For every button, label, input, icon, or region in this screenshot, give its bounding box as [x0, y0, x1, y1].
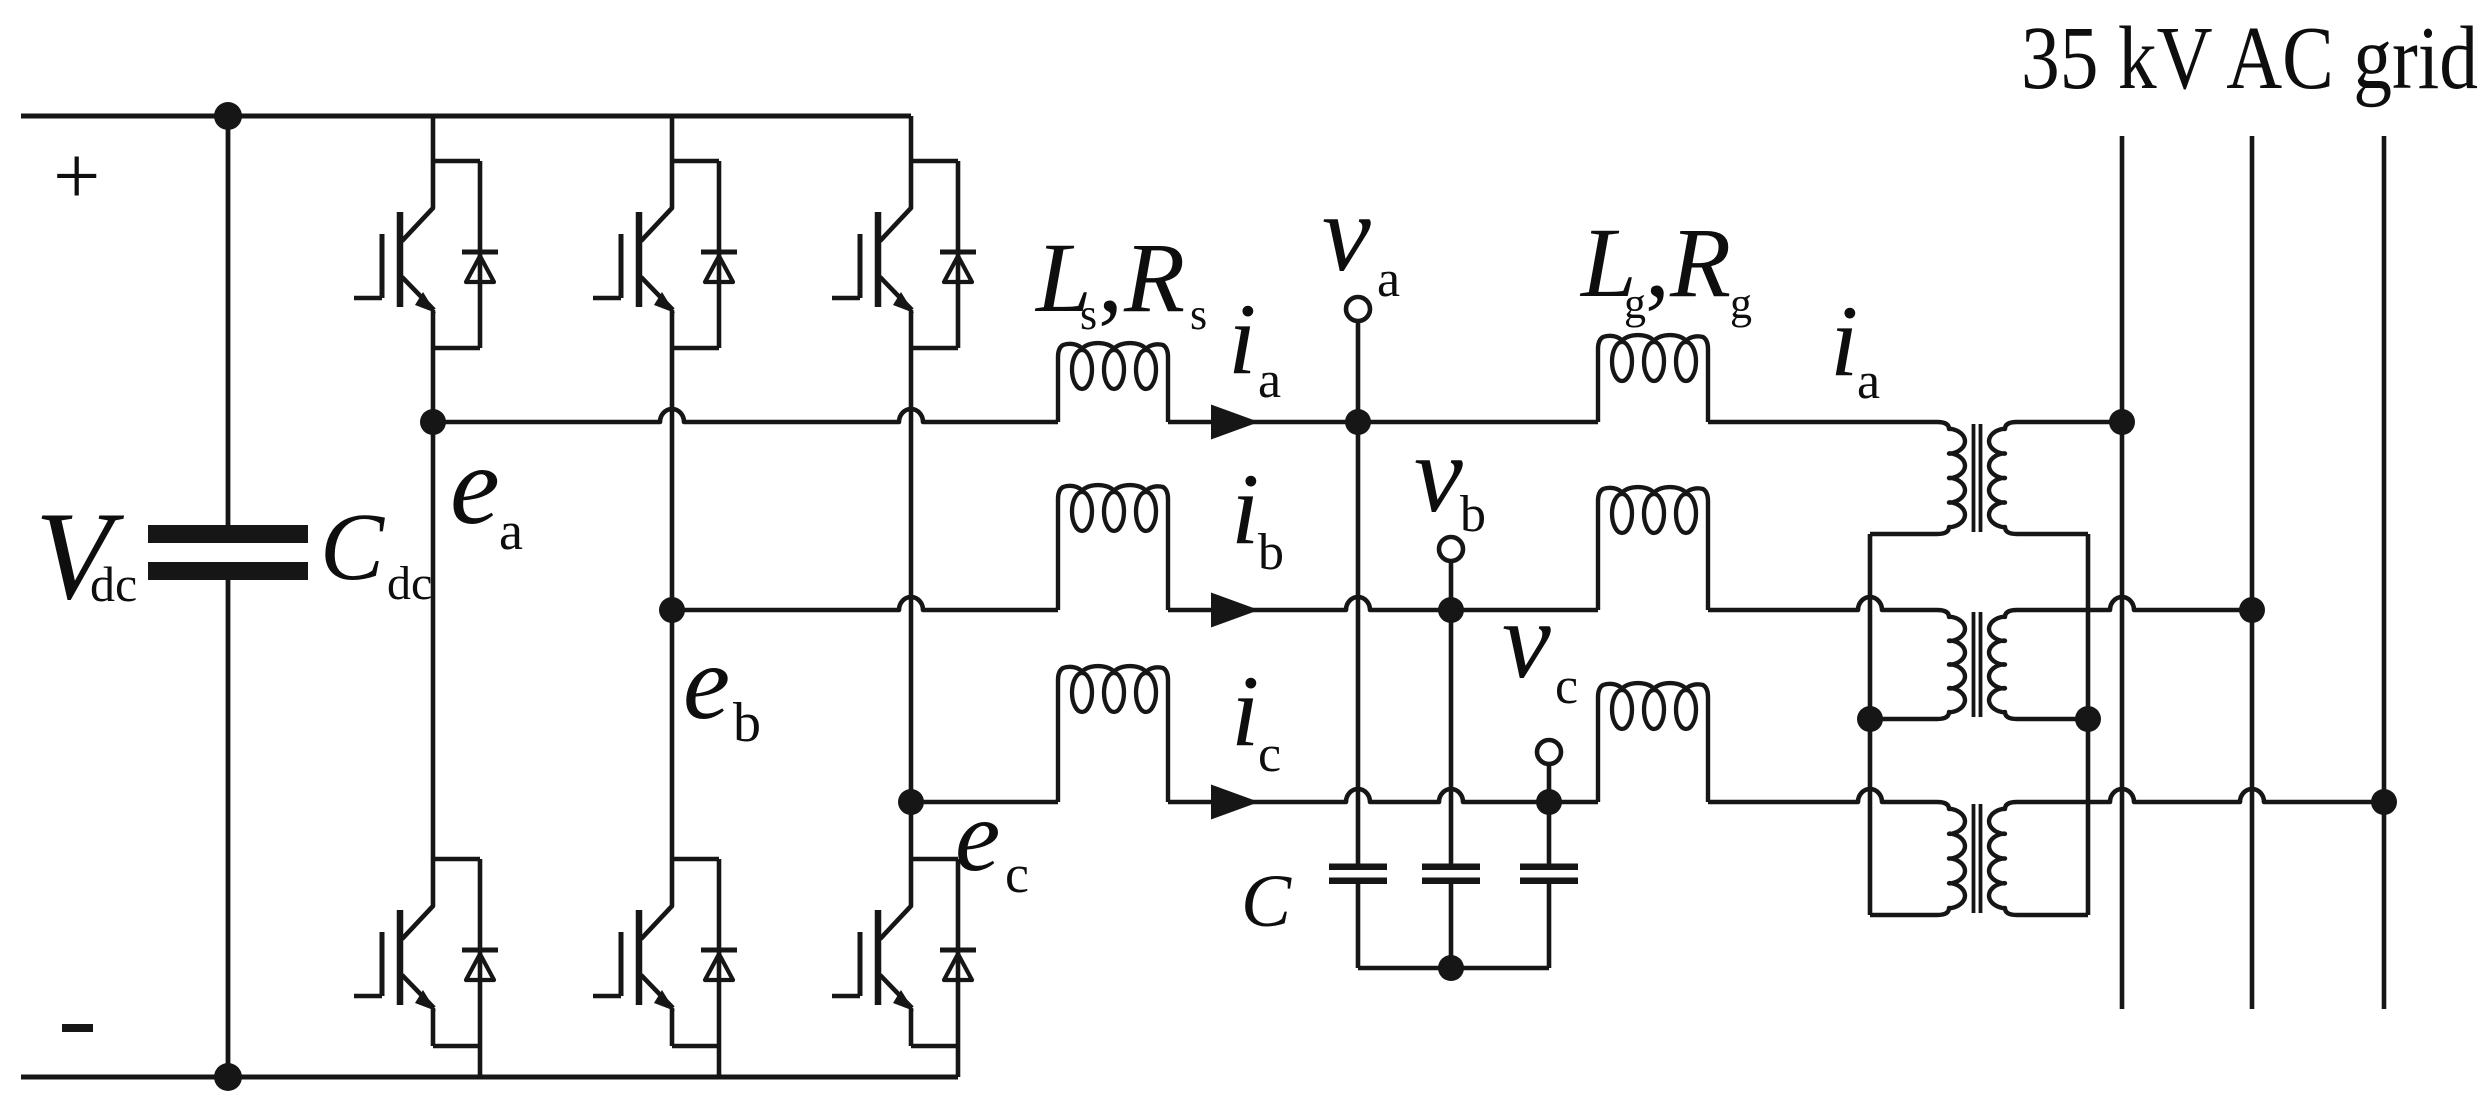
node: vc junction: [1536, 789, 1562, 815]
svg-text:R: R: [1123, 222, 1185, 333]
transistor Q3 (upper, phase b): [593, 161, 719, 348]
wire: leg a upper emitter to phase node: [431, 348, 436, 422]
node: phase c output: [898, 789, 924, 815]
capacitor C (phase a): [1329, 864, 1387, 969]
wire: primary star vertical: [1868, 534, 1873, 915]
grid bus line phase A: [2120, 136, 2125, 1009]
node: phase a output: [420, 409, 446, 435]
svg-text:s: s: [1190, 290, 1207, 339]
svg-text:+: +: [53, 130, 100, 223]
transistor Q4 (lower, phase b): [593, 859, 719, 1046]
svg-text:c: c: [1005, 844, 1029, 904]
wire: leg a phase node to lower collector: [431, 422, 436, 859]
label +: [53, 130, 100, 223]
svg-text:a: a: [499, 501, 523, 561]
wire: T3 secondary to grid phase C: [2017, 789, 2384, 802]
capacitor Cdc: [148, 116, 308, 1077]
svg-text:dc: dc: [90, 556, 137, 612]
svg-text:c: c: [1555, 658, 1578, 715]
node: grid phase A junction: [2109, 409, 2135, 435]
wire: leg c to DC- bus: [956, 1046, 961, 1077]
svg-text:c: c: [1258, 726, 1281, 783]
label -: [62, 1024, 93, 1032]
label ia (grid current, phase a): [1830, 285, 1880, 410]
svg-text:i: i: [1830, 285, 1858, 398]
svg-text:e: e: [955, 780, 1000, 893]
svg-text:35 kV AC grid: 35 kV AC grid: [2021, 9, 2478, 108]
svg-text:b: b: [1258, 524, 1284, 581]
node: DC- bus / Cdc junction: [214, 1063, 242, 1091]
svg-text:b: b: [733, 692, 761, 754]
wire: vc tap vertical: [1547, 764, 1552, 802]
wire: secondary star vertical: [2086, 534, 2091, 915]
label 35 kV AC grid: [2021, 9, 2478, 108]
wire: leg a collector stub from DC+ bus: [431, 116, 436, 161]
svg-text:,: ,: [1645, 207, 1670, 318]
transformer T1 secondary winding: [1989, 422, 2088, 534]
transformer T3 primary winding: [1870, 802, 1965, 915]
wire: phase b Ls to vb node: [1168, 597, 1451, 610]
svg-text:i: i: [1228, 283, 1256, 396]
wire: phase a Ls to va node: [1168, 420, 1358, 425]
svg-text:R: R: [1669, 207, 1731, 318]
wire: vb node down to capacitor: [1449, 610, 1454, 864]
diode D4 (antiparallel): [701, 859, 737, 1046]
wire: leg a to DC- bus: [478, 1046, 483, 1077]
capacitor C (phase b): [1422, 864, 1480, 969]
svg-text:g: g: [1730, 279, 1752, 328]
label vc: [1502, 579, 1578, 715]
svg-text:s: s: [1080, 290, 1097, 339]
label ib (phase b converter current): [1231, 453, 1284, 581]
wire: phase c vc node to Lg: [1549, 800, 1598, 805]
inductor Ls (phase c): [1058, 666, 1168, 802]
node: vb junction: [1438, 597, 1464, 623]
label C (filter capacitor): [1241, 860, 1292, 943]
transistor Q6 (lower, phase c): [832, 859, 958, 1046]
svg-text:e: e: [450, 424, 500, 548]
node terminal vb (open circle): [1439, 537, 1463, 561]
svg-text:a: a: [1857, 353, 1880, 410]
wire: phase c inverter to Ls: [911, 800, 1058, 805]
transformer T3 secondary winding: [1989, 802, 2088, 915]
wire: positive DC bus: [21, 114, 911, 119]
capacitor C (phase c): [1520, 864, 1578, 969]
transistor Q5 (upper, phase c): [832, 161, 958, 348]
wire: phase c Lg to transformer T3: [1708, 789, 1937, 802]
svg-text:a: a: [1377, 251, 1400, 308]
grid bus line phase B: [2250, 136, 2255, 1009]
wire: leg b upper emitter to phase node: [670, 348, 675, 610]
wire: capacitor star tie: [1358, 966, 1549, 971]
inductor Ls (phase a): [1058, 343, 1168, 422]
diode D2 (antiparallel): [462, 859, 498, 1046]
svg-text:dc: dc: [387, 557, 432, 610]
node: phase b output: [659, 597, 685, 623]
node terminal va (open circle): [1346, 297, 1370, 321]
svg-text:a: a: [1258, 352, 1281, 409]
wire: phase a Lg to transformer T1: [1708, 420, 1937, 425]
arrow ic (converter current, phase c): [1211, 785, 1259, 820]
label Ls, Rs: [1034, 222, 1207, 339]
wire: negative DC bus: [21, 1075, 958, 1080]
node: grid phase B junction: [2239, 597, 2265, 623]
svg-text:v: v: [1502, 579, 1551, 701]
node: DC+ bus / Cdc junction: [214, 102, 242, 130]
diode D5 (antiparallel): [940, 161, 976, 348]
wire: vc node down to capacitor: [1547, 802, 1552, 864]
wire: phase b Lg to transformer T2: [1708, 597, 1937, 610]
svg-text:e: e: [683, 624, 730, 741]
transformer T2 core: [1974, 612, 1981, 717]
wire: leg c upper emitter to phase node: [909, 348, 914, 802]
label va: [1322, 172, 1400, 308]
diode D1 (antiparallel): [462, 161, 498, 348]
label eb: [683, 624, 761, 754]
node: secondary star mid junction: [2075, 706, 2101, 732]
node: grid phase C junction: [2371, 789, 2397, 815]
transformer T3 core: [1974, 804, 1981, 913]
wire: leg c collector stub from DC+ bus: [909, 116, 914, 161]
node: va junction: [1345, 409, 1371, 435]
label vb: [1414, 413, 1486, 543]
svg-text:,: ,: [1098, 222, 1123, 333]
arrow ia (converter current, phase a): [1211, 405, 1259, 440]
transformer T2 secondary winding: [1989, 610, 2088, 719]
svg-text:g: g: [1624, 279, 1646, 328]
wire: phase a inverter to Ls: [433, 409, 1058, 422]
transistor Q2 (lower, phase a): [354, 859, 480, 1046]
transistor Q1 (upper, phase a): [354, 161, 480, 348]
svg-text:C: C: [320, 493, 385, 600]
label Vdc: [35, 487, 137, 626]
node terminal vc (open circle): [1537, 740, 1561, 764]
transformer T1 core: [1974, 424, 1981, 532]
svg-text:i: i: [1231, 453, 1259, 566]
svg-text:b: b: [1460, 486, 1486, 543]
label ic (phase c converter current): [1231, 655, 1281, 783]
wire: T1 secondary to grid phase A: [2017, 420, 2122, 425]
label ia (phase a converter current): [1228, 283, 1281, 409]
label Cdc: [320, 493, 432, 610]
wire: phase a va node to Lg: [1358, 420, 1598, 425]
svg-text:i: i: [1231, 655, 1259, 768]
node: primary star mid junction: [1857, 706, 1883, 732]
label Lg, Rg: [1579, 207, 1752, 328]
wire: leg b phase node to lower collector: [670, 610, 675, 859]
wire: phase b inverter to Ls: [672, 597, 1058, 610]
svg-text:v: v: [1414, 413, 1463, 535]
inductor Lg (phase c): [1598, 683, 1708, 802]
wire: phase b vb node to Lg: [1451, 608, 1598, 613]
label ec: [955, 780, 1029, 904]
svg-text:v: v: [1322, 172, 1371, 294]
transformer T1 primary winding: [1870, 422, 1965, 534]
wire: T2 secondary to grid phase B: [2017, 597, 2252, 610]
transformer T2 primary winding: [1870, 610, 1965, 719]
wire: va node down to capacitor: [1356, 422, 1361, 864]
arrow ib (converter current, phase b): [1211, 593, 1259, 628]
label ea: [450, 424, 523, 561]
node: capacitor star point: [1438, 955, 1464, 981]
wire: leg c phase node to lower collector: [909, 802, 914, 859]
inductor Lg (phase a): [1598, 335, 1708, 422]
diode D3 (antiparallel): [701, 161, 737, 348]
wire: va tap vertical: [1356, 321, 1361, 422]
wire: leg b to DC- bus: [717, 1046, 722, 1077]
diode D6 (antiparallel): [940, 859, 976, 1046]
svg-text:C: C: [1241, 860, 1292, 943]
inductor Lg (phase b): [1598, 487, 1708, 610]
wire: phase c Ls to vc node: [1168, 789, 1549, 802]
inductor Ls (phase b): [1058, 485, 1168, 610]
grid bus line phase C: [2382, 136, 2387, 1009]
wire: leg b collector stub from DC+ bus: [670, 116, 675, 161]
wire: vb tap vertical: [1449, 561, 1454, 610]
